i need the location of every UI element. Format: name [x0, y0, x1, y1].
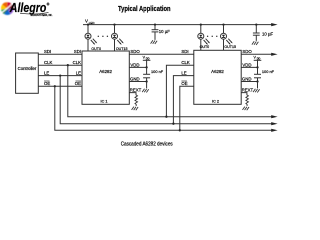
- svg-text:10 µF: 10 µF: [262, 32, 273, 37]
- ground (C2): [252, 41, 259, 45]
- Allegro logo ball: [1, 2, 14, 15]
- bus vertical OE drop: [55, 86, 273, 130]
- svg-text:SDO: SDO: [242, 49, 252, 54]
- svg-text:SDI: SDI: [74, 49, 81, 54]
- wire CLK tap to IC2: [166, 65, 193, 117]
- ground (C1): [151, 40, 158, 44]
- svg-text:VDD: VDD: [130, 62, 139, 67]
- node VDD junction IC1: [145, 66, 147, 68]
- svg-text:CLK: CLK: [44, 60, 52, 65]
- svg-text:Typical Application: Typical Application: [118, 4, 171, 13]
- svg-text:OUT0: OUT0: [200, 45, 210, 49]
- bus vertical CLK drop: [68, 65, 273, 117]
- svg-text:SDO: SDO: [130, 49, 140, 54]
- arrow LE bus: [271, 122, 277, 125]
- wire CLK controller to IC1: [38, 64, 82, 66]
- svg-text:LE: LE: [44, 71, 49, 76]
- wire VDD pin IC1: [129, 66, 146, 68]
- wire OE tap to IC2: [180, 86, 194, 130]
- power VDD supply IC2: [254, 56, 262, 68]
- svg-text:IC 2: IC 2: [212, 99, 219, 103]
- wire REXT pin IC2: [241, 93, 247, 96]
- Controller box: [16, 53, 39, 93]
- node GND junction IC1: [145, 80, 147, 82]
- svg-text:CLK: CLK: [181, 60, 189, 65]
- wire LE controller to IC1: [38, 75, 82, 77]
- svg-text:A6282: A6282: [211, 69, 224, 74]
- svg-text:MICROSYSTEMS, INC.: MICROSYSTEMS, INC.: [31, 13, 53, 17]
- capacitor C3 100nF IC1: [143, 67, 150, 81]
- ellipsis between D1 D2: [98, 36, 109, 37]
- svg-text:OUT0: OUT0: [91, 47, 101, 51]
- ground (R1): [132, 107, 139, 111]
- wire LE tap to IC2: [173, 76, 193, 124]
- svg-text:Controller: Controller: [18, 66, 37, 71]
- svg-text:OUT15: OUT15: [116, 47, 128, 51]
- capacitor C4 100nF IC2: [254, 67, 261, 81]
- LED D3 (OUT0 of IC2): [198, 25, 210, 51]
- op IC1 A6282 box: [82, 51, 129, 104]
- LED D2 (OUT15 of IC1): [112, 25, 124, 51]
- svg-text:GND: GND: [130, 76, 140, 81]
- wire SDI controller to IC1: [38, 53, 82, 55]
- svg-text:SDI: SDI: [44, 49, 51, 54]
- junction dots on VLED rail: [87, 23, 258, 25]
- svg-text:CLK: CLK: [73, 60, 81, 65]
- Allegro logo word: [9, 1, 53, 17]
- ground (R2): [243, 107, 250, 111]
- node LE junction: [59, 74, 61, 76]
- LED D4 (OUT15 of IC2): [221, 25, 233, 51]
- arrow OE bus: [271, 129, 277, 132]
- LED D1 (OUT0 of IC1): [85, 25, 97, 51]
- power VDD supply IC1: [143, 56, 151, 68]
- wire VLED rail: [83, 24, 273, 26]
- node CLK junction: [67, 64, 69, 66]
- svg-text:A6282: A6282: [99, 69, 112, 74]
- resistor R2: [246, 95, 249, 106]
- svg-text:100 nF: 100 nF: [151, 69, 164, 74]
- wire OE controller to IC1: [38, 85, 82, 87]
- bus vertical LE drop: [60, 76, 272, 124]
- wire GND pin IC1: [129, 81, 146, 83]
- svg-text:GND: GND: [242, 76, 252, 81]
- wire VDD pin IC2: [241, 66, 257, 68]
- wire SDO IC2 out: [241, 53, 272, 55]
- node GND junction IC2: [256, 80, 258, 82]
- ground (IC2 GND): [253, 89, 260, 93]
- svg-text:LE: LE: [181, 71, 186, 76]
- svg-text:VDD: VDD: [242, 62, 251, 67]
- op IC2 A6282 box: [194, 50, 241, 104]
- svg-text:LE: LE: [76, 71, 81, 76]
- wire GND pin IC2: [241, 81, 257, 83]
- svg-text:OE: OE: [181, 81, 187, 86]
- svg-text:Allegro: Allegro: [9, 1, 47, 15]
- arrow SDO out: [271, 53, 277, 56]
- wire REXT pin IC1: [129, 93, 136, 96]
- svg-text:OUT15: OUT15: [224, 45, 236, 49]
- node VDD junction IC2: [256, 66, 258, 68]
- svg-text:OE: OE: [75, 81, 81, 86]
- svg-text:OE: OE: [44, 81, 50, 86]
- node OE junction: [54, 85, 56, 87]
- ground (IC1 GND): [142, 89, 149, 93]
- svg-text:SDI: SDI: [181, 49, 188, 54]
- svg-text:Cascaded A6282 devices: Cascaded A6282 devices: [121, 141, 173, 147]
- svg-text:REXT: REXT: [242, 88, 254, 93]
- capacitor C2 10uF on VLED rail: [253, 25, 260, 41]
- svg-text:10 µF: 10 µF: [159, 29, 170, 34]
- resistor R1: [135, 95, 138, 106]
- capacitor C1 10uF on VLED rail: [152, 25, 159, 40]
- ellipsis between D3 D4: [207, 36, 218, 37]
- wire SDO IC1 to SDI IC2: [129, 53, 194, 55]
- svg-text:100 nF: 100 nF: [262, 69, 275, 74]
- svg-text:REXT: REXT: [130, 88, 142, 93]
- arrow CLK bus: [271, 115, 277, 118]
- node VLED label: [85, 19, 94, 25]
- svg-text:V: V: [85, 19, 88, 24]
- arrow VLED rail end: [271, 23, 277, 26]
- svg-text:IC 1: IC 1: [101, 100, 108, 104]
